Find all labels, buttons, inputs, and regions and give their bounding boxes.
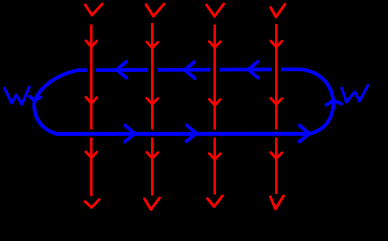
arrowhead loop bottom 2 (right) — [186, 125, 196, 141]
label V4 bottom — [270, 196, 283, 209]
loop bottom segment redrawn on top — [56, 132, 310, 136]
gap in red V3 at bottom blue — [212, 130, 218, 138]
arrowhead V1 c — [86, 152, 97, 158]
arrowhead V1 a — [86, 41, 97, 47]
arrowhead loop left cap (down) — [30, 97, 41, 101]
arrowhead V3 b — [209, 99, 220, 105]
arrowhead V2 a — [147, 42, 158, 48]
gap in top blue at line V3 — [210, 64, 219, 75]
label V1 bottom — [85, 200, 99, 208]
gap in top blue at line V1 — [87, 64, 96, 75]
arrowhead V4 a — [271, 41, 282, 47]
gap in red V1 at bottom blue — [89, 130, 95, 138]
arrowhead V2 c — [147, 152, 158, 158]
label W right — [342, 85, 368, 102]
label V3 bottom — [208, 196, 223, 207]
arrowhead loop bottom 3 (right) — [299, 126, 309, 142]
gap in red V2 at bottom blue — [150, 130, 156, 138]
red line V2 — [151, 23, 154, 196]
arrowhead V1 b — [86, 97, 97, 103]
label V4 top — [271, 4, 285, 17]
label V1 top — [85, 4, 102, 15]
red line V4 — [275, 24, 278, 194]
label V3 top — [207, 4, 224, 17]
arrowhead V3 a — [209, 42, 220, 48]
arrowhead loop top 3 (left) — [248, 62, 258, 78]
arrowhead loop top 1 (left) — [117, 62, 127, 78]
arrowhead loop right cap (up) — [326, 100, 341, 105]
label W left — [4, 87, 29, 104]
loop W (blue stadium curve) — [34, 69, 333, 134]
arrowhead V3 c — [209, 154, 220, 160]
gap in red V4 at bottom blue — [274, 130, 280, 138]
arrowhead V4 c — [271, 153, 282, 159]
label V2 top — [146, 4, 164, 16]
arrowhead loop top 2 (left) — [185, 62, 195, 78]
arrowhead V2 b — [147, 98, 158, 104]
label V2 bottom — [145, 198, 160, 210]
red line V3 — [213, 25, 216, 195]
arrowhead V4 b — [271, 98, 282, 104]
gap in top blue at line V4 — [272, 64, 281, 75]
red line V1 — [90, 25, 93, 197]
arrowhead loop bottom 1 (right) — [125, 126, 135, 142]
gap in top blue at line V2 — [148, 64, 158, 75]
